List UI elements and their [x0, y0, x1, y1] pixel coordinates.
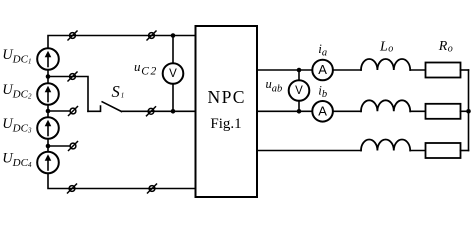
resistor Ro phase c	[426, 143, 461, 158]
voltmeter uC2	[163, 63, 184, 84]
source UDC1	[37, 48, 59, 70]
svg-text:ia: ia	[318, 41, 327, 58]
inductor Lo phase a	[361, 59, 410, 70]
wire top rail from UDC1 to NPC	[48, 36, 196, 49]
wire marker on bottom rail (left)	[68, 184, 77, 193]
wire marker on top rail (left)	[68, 31, 77, 40]
wire phase a to neutral bus	[461, 69, 469, 71]
wire phase c to neutral bus	[461, 150, 469, 152]
svg-text:ib: ib	[318, 82, 327, 100]
wire phase c from NPC to inductor	[257, 150, 361, 152]
wire DC source chain vertical	[47, 49, 49, 174]
svg-text:Ro: Ro	[438, 39, 453, 54]
node on middle wire (uC2 tap)	[171, 109, 176, 114]
inductor Lo phase c	[361, 140, 410, 151]
wire phase b from NPC to ammeter	[257, 110, 312, 112]
wire marker on stub3	[69, 142, 78, 151]
svg-text:UDC3: UDC3	[2, 116, 32, 135]
wire phase a inductor to resistor	[410, 69, 425, 71]
wire marker on bottom rail (right)	[148, 184, 157, 193]
wire neutral bus vertical	[468, 70, 470, 151]
source UDC4	[37, 152, 59, 174]
svg-text:A: A	[318, 62, 327, 77]
svg-text:uab: uab	[266, 77, 283, 95]
svg-text:uC2: uC2	[134, 59, 158, 78]
wire phase a from NPC to ammeter	[257, 69, 312, 71]
wire phase a to inductor	[333, 69, 361, 71]
wire phase c inductor to resistor	[410, 150, 425, 152]
svg-text:Fig.1: Fig.1	[210, 116, 241, 132]
svg-text:UDC2: UDC2	[2, 82, 32, 101]
resistor Ro phase a	[426, 63, 461, 78]
node on top rail (uC2 tap)	[171, 33, 176, 38]
svg-text:NPC: NPC	[207, 87, 245, 107]
node between UDC1 and UDC2	[46, 74, 51, 79]
svg-text:UDC1: UDC1	[2, 47, 31, 66]
resistor Ro phase b	[426, 104, 461, 119]
svg-text:V: V	[295, 85, 303, 97]
wire marker on stub1	[68, 72, 77, 81]
source UDC3	[37, 117, 59, 139]
svg-text:UDC4: UDC4	[2, 151, 32, 170]
svg-text:Lo: Lo	[379, 39, 393, 54]
source UDC2	[37, 83, 59, 105]
node phase a (uab tap)	[297, 68, 302, 73]
voltmeter uC2 leads	[172, 36, 174, 112]
wire marker on stub2	[69, 107, 78, 116]
wire phase b to inductor	[333, 110, 361, 112]
svg-text:A: A	[318, 103, 327, 118]
wire marker on top rail (right)	[147, 31, 156, 40]
wire phase b inductor to resistor	[410, 110, 425, 112]
switch S1 blade	[102, 102, 121, 112]
ammeter ia	[312, 60, 333, 81]
ammeter ib	[312, 101, 333, 122]
node between UDC2 and UDC3 (DC midpoint)	[46, 109, 51, 114]
node between UDC3 and UDC4	[46, 144, 51, 149]
wire bottom rail from UDC4 to NPC	[48, 173, 196, 188]
voltmeter uab	[289, 80, 310, 101]
svg-text:S1: S1	[112, 82, 125, 101]
NPC converter block U1	[196, 26, 258, 197]
wire stub from midpoint node (open ended)	[48, 110, 70, 112]
svg-text:V: V	[169, 68, 177, 80]
node phase b (uab tap)	[297, 109, 302, 114]
voltmeter uab leads	[298, 70, 300, 111]
wire phase b to neutral bus	[461, 110, 469, 112]
wire marker on middle wire	[147, 107, 156, 116]
inductor Lo phase b	[361, 100, 410, 111]
switch S1 left terminal lead	[88, 106, 101, 111]
node neutral bus	[466, 109, 471, 114]
wire from switch to NPC middle input	[122, 110, 196, 112]
wire stub from node3 (open ended)	[48, 145, 70, 147]
wire stub from node1 to switch downleg	[48, 77, 88, 112]
